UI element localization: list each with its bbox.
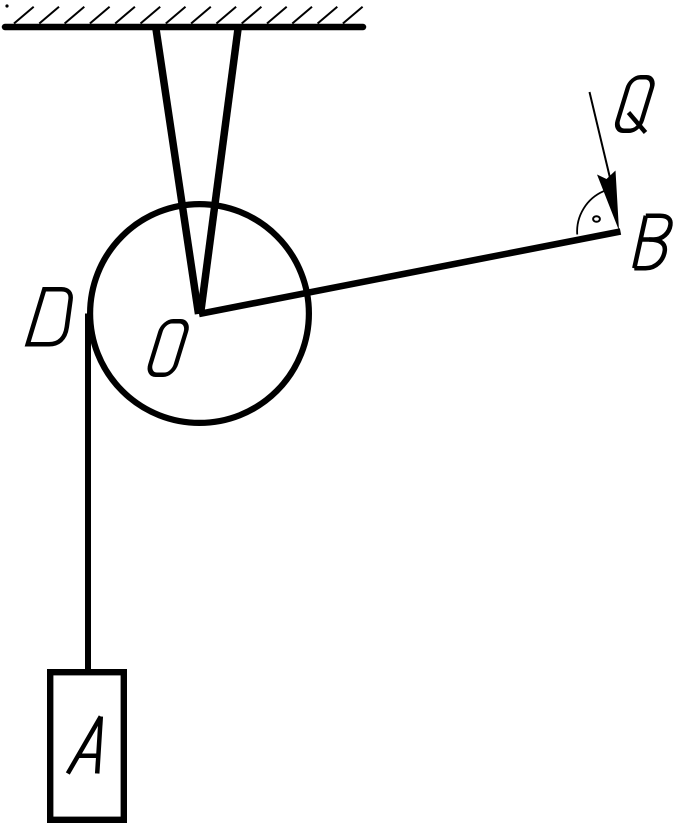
force Q line <box>590 92 611 180</box>
angle arc at B <box>577 191 604 234</box>
force Q arrowhead <box>597 171 619 231</box>
label Q tail <box>629 113 646 133</box>
block A rectangle <box>50 672 124 820</box>
small circle in angle <box>593 216 600 222</box>
ceiling hatching <box>14 7 363 24</box>
rod O-B <box>199 232 621 315</box>
bracket left leg <box>156 29 199 314</box>
label A <box>68 717 101 774</box>
label Q bowl <box>615 77 655 131</box>
pulley circle O <box>90 204 309 423</box>
label O <box>147 321 189 375</box>
label D <box>28 289 71 344</box>
stray dot top-left <box>5 4 8 7</box>
ceiling beam <box>5 24 363 31</box>
label B <box>634 216 670 269</box>
bracket right leg <box>201 29 239 314</box>
rope D to block <box>85 314 91 673</box>
